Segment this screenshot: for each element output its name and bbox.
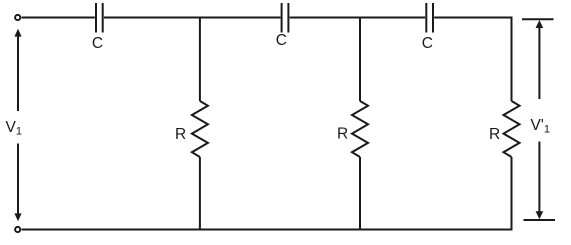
wire top segment 1 xyxy=(22,17,95,19)
wire top segment 3 xyxy=(290,17,426,19)
wire branch 1 lower xyxy=(199,157,201,230)
wire branch 2 upper xyxy=(359,18,361,102)
terminal bottom-left xyxy=(15,227,20,232)
wire top segment 2 xyxy=(104,17,281,19)
capacitor C3 xyxy=(426,3,433,33)
resistor R1 xyxy=(192,101,208,157)
resistor R2 xyxy=(352,101,368,157)
svg-text:R: R xyxy=(489,126,500,143)
svg-text:C: C xyxy=(276,32,287,49)
wire branch 1 upper xyxy=(199,18,201,102)
V'1 measure arrow xyxy=(522,19,555,220)
wire top segment 4 xyxy=(434,17,512,19)
svg-text:R: R xyxy=(175,126,186,143)
capacitor C2 xyxy=(282,3,289,33)
V1 source arrow xyxy=(17,34,19,216)
capacitor C1 xyxy=(96,3,103,33)
wire branch 2 lower xyxy=(359,157,361,230)
svg-text:R: R xyxy=(337,125,348,142)
wire right branch upper xyxy=(511,17,513,102)
svg-text:C: C xyxy=(92,35,103,52)
resistor R3 xyxy=(504,101,520,157)
svg-text:C: C xyxy=(422,35,433,52)
wire right branch lower xyxy=(511,157,513,231)
wire bottom xyxy=(22,229,513,231)
terminal top-left xyxy=(15,15,20,20)
